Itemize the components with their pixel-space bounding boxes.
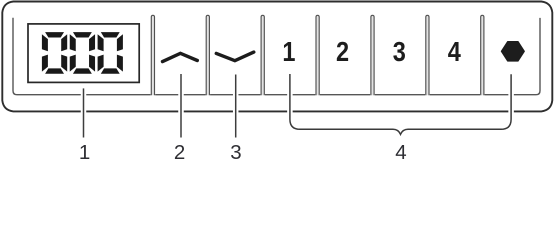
svg-text:4: 4 [448,37,462,67]
7-segment digit 0 (first) [42,32,67,74]
7-segment digit 0 (second) [70,32,95,74]
button numeral 2 [336,37,349,67]
svg-text:1: 1 [79,141,90,162]
down chevron button [216,52,254,61]
leader line 3 (down button) [235,75,237,138]
slot divider 4 [315,92,320,97]
outer panel border [2,2,552,112]
slot divider 3 [260,92,265,97]
slot divider 6 [425,92,430,97]
leader line 3 (down button) casing [233,75,239,138]
leader line 2 (up button) casing [178,74,184,138]
slot divider 2 [206,92,211,97]
brace for label 4 casing [290,74,511,134]
svg-text:4: 4 [395,141,406,162]
button numeral 3 [393,37,406,67]
leader line 1 (display) casing [81,88,87,137]
brace for label 4 [290,74,511,134]
display window [28,24,139,83]
slot divider 5 [370,92,375,97]
slot divider 7 [480,92,485,97]
hexagon stop button [501,42,524,62]
button numeral 1 [282,37,295,67]
7-segment digit 0 (third) [98,32,123,74]
svg-text:3: 3 [393,37,406,67]
button numeral 4 [448,37,462,67]
svg-text:1: 1 [282,37,295,67]
svg-text:2: 2 [174,141,185,162]
svg-text:3: 3 [230,141,241,162]
up chevron button [163,53,198,61]
leader line 2 (up button) [180,74,182,138]
leader line 1 (display) [83,88,85,137]
svg-text:2: 2 [336,37,349,67]
slot divider 1 [151,92,156,97]
inner tray (recessed button area) [13,18,540,95]
